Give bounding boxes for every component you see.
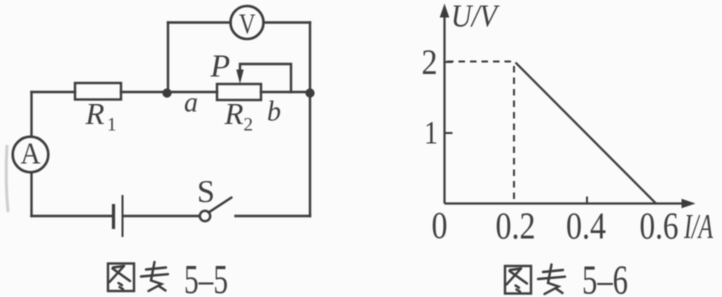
battery long plate (positive)	[122, 195, 124, 237]
dashed line I=0.2 from curve down to axis	[513, 66, 515, 202]
wire left rail lower (ammeter to bottom wire)	[30, 173, 32, 217]
node b junction dot	[305, 88, 314, 97]
svg-text:b: b	[267, 97, 281, 128]
wire switch to right rail	[236, 215, 311, 217]
caption 1 hanzi: 图 (box)	[108, 262, 168, 291]
U-I characteristic line	[516, 63, 657, 204]
wire slider P up-and-over to node b	[240, 64, 291, 92]
wire main horizontal left segment (left rail to R1)	[32, 91, 76, 93]
dashed line U=2 from axis to curve	[447, 61, 513, 63]
wire top-right horizontal (voltmeter right to right rail)	[264, 21, 311, 23]
svg-text:5–5: 5–5	[184, 256, 228, 297]
switch S pivot circle	[200, 211, 210, 221]
svg-text:0.4: 0.4	[566, 206, 606, 248]
wire top-left horizontal (node a up to voltmeter left)	[168, 21, 231, 23]
svg-text:5–6: 5–6	[582, 257, 628, 297]
svg-text:0.6: 0.6	[640, 206, 679, 248]
svg-text:A: A	[21, 136, 42, 171]
svg-text:1: 1	[107, 115, 117, 136]
svg-text:V: V	[239, 9, 256, 41]
svg-text:I/A: I/A	[683, 207, 713, 246]
tick U=1	[445, 132, 453, 134]
wire left vertical from top wire down to node a	[167, 23, 169, 93]
wire bottom left (to battery)	[32, 215, 113, 217]
svg-text:P: P	[210, 48, 231, 84]
wire left rail upper (main wire down to ammeter)	[30, 92, 32, 137]
node a junction dot	[162, 88, 171, 97]
caption 2 hanzi: 图 (box)	[505, 265, 565, 295]
tick U=2	[445, 61, 453, 63]
resistor R1	[75, 83, 121, 100]
switch S lever	[209, 198, 232, 213]
right vertical rail	[309, 23, 311, 217]
wire node a to R2	[167, 91, 217, 93]
caption 2 hanzi: 专	[543, 270, 563, 272]
svg-text:S: S	[197, 173, 215, 209]
图 inner 冬 strokes	[510, 269, 521, 271]
wire R1 to node a	[121, 91, 167, 93]
svg-text:R: R	[224, 96, 244, 131]
svg-text:0.2: 0.2	[496, 206, 536, 248]
I axis arrowhead	[682, 199, 696, 209]
svg-text:2: 2	[422, 42, 438, 82]
ammeter circle	[13, 137, 49, 173]
tick I=0.4	[586, 197, 588, 204]
svg-text:U/V: U/V	[451, 0, 500, 34]
图 inner 冬 strokes	[113, 266, 124, 268]
svg-text:a: a	[184, 88, 198, 119]
scan noise left edge	[6, 145, 8, 212]
graph: I axis (horizontal)	[445, 202, 683, 204]
wire R2 right terminal to node b	[261, 91, 310, 93]
battery short plate (negative)	[112, 204, 115, 229]
svg-text:2: 2	[244, 115, 254, 136]
wire battery to switch	[124, 215, 200, 217]
U axis arrowhead	[440, 4, 450, 18]
svg-text:1: 1	[424, 116, 438, 152]
svg-text:R: R	[85, 96, 105, 131]
graph: U axis (vertical)	[443, 15, 445, 204]
slider P arrowhead	[236, 70, 243, 85]
caption 1 hanzi: 专	[146, 268, 166, 270]
resistor R2 (rheostat body)	[217, 84, 261, 100]
voltmeter U-V circle	[231, 6, 264, 39]
svg-text:0: 0	[432, 205, 448, 247]
